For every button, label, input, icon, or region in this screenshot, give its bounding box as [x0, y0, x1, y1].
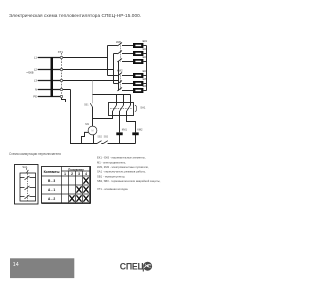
svg-text:М1 - электродвигатель,: М1 - электродвигатель, [97, 160, 126, 164]
svg-text:3: 3 [78, 172, 80, 176]
svg-text:14: 14 [13, 262, 19, 268]
svg-text:КМ2: КМ2 [117, 69, 123, 73]
svg-text:SB2, SB3 - термовыключатели ав: SB2, SB3 - термовыключатели аварийной за… [97, 179, 161, 183]
svg-text:Схема коммутации переключателя: Схема коммутации переключателя [9, 152, 61, 156]
svg-text:ЕК4: ЕК4 [143, 70, 148, 73]
svg-text:ХТ1: ХТ1 [58, 50, 64, 54]
svg-text:2: 2 [71, 172, 73, 176]
svg-text:КМ2: КМ2 [137, 127, 143, 131]
svg-text:А - 2: А - 2 [48, 197, 55, 201]
svg-text:1: 1 [64, 172, 66, 176]
svg-text:ЕК1: ЕК1 [143, 40, 148, 43]
svg-text:СПЕЦ: СПЕЦ [120, 262, 145, 272]
svg-text:SB1: SB1 [84, 104, 89, 107]
svg-text:SA1: SA1 [22, 165, 28, 169]
svg-text:N: N [35, 88, 37, 92]
svg-text:SB3: SB3 [104, 136, 109, 139]
svg-text:L2: L2 [34, 68, 38, 72]
svg-text:4: 4 [85, 172, 87, 176]
svg-text:КМ1: КМ1 [122, 127, 128, 131]
svg-text:ЕК6: ЕК6 [143, 85, 148, 88]
svg-text:В - 3: В - 3 [48, 179, 55, 183]
svg-text:SA1: SA1 [140, 106, 146, 110]
svg-text:PE: PE [33, 95, 37, 99]
svg-text:М: М [91, 129, 93, 133]
svg-text:А - 1: А - 1 [48, 188, 55, 192]
svg-text:Электрическая схема тепловенти: Электрическая схема тепловентилятора СПЕ… [9, 13, 141, 18]
svg-text:Контакты: Контакты [44, 170, 60, 174]
svg-text:КМ1: КМ1 [116, 40, 122, 44]
svg-text:ЕК3: ЕК3 [143, 56, 148, 59]
svg-text:ЕК5: ЕК5 [143, 78, 148, 81]
svg-text:Положение: Положение [68, 167, 84, 171]
svg-text:L1: L1 [34, 56, 38, 60]
svg-text:ЕК2: ЕК2 [143, 48, 148, 51]
svg-text:L3: L3 [34, 79, 38, 83]
svg-text:КМ1, КМ2 - электромагнитные пу: КМ1, КМ2 - электромагнитные пускатели, [97, 165, 149, 169]
svg-text:SA1 - переключатель режимов ра: SA1 - переключатель режимов работы, [97, 170, 146, 174]
svg-text:SB2: SB2 [97, 136, 102, 139]
svg-text:М1: М1 [85, 122, 89, 126]
svg-text:ЕК1 - ЕК6 - нагревательные эле: ЕК1 - ЕК6 - нагревательные элементы, [97, 156, 146, 160]
svg-text:SB1 - терморегулятор,: SB1 - терморегулятор, [97, 174, 125, 178]
svg-text:ХТ1 - клеммная колодка.: ХТ1 - клеммная колодка. [97, 187, 128, 191]
svg-text:~400В: ~400В [26, 71, 34, 75]
